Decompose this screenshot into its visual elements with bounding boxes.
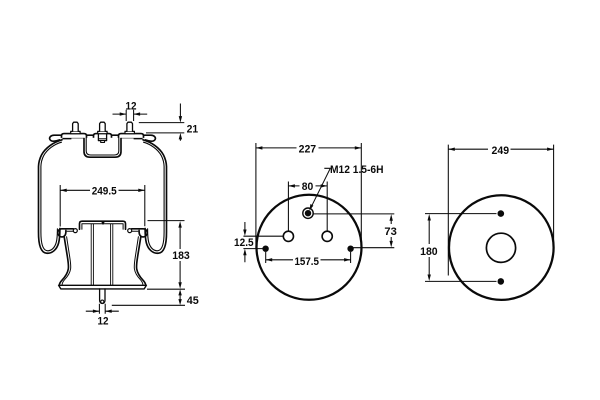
dim 249: extension lines [448, 145, 553, 276]
stud flange center [98, 131, 107, 133]
dim 157.5: dimension lines [266, 259, 351, 261]
dim 183: extension line [148, 220, 185, 222]
plate boss right [119, 134, 144, 138]
svg-text:73: 73 [384, 226, 396, 238]
dim 227: arrows [256, 146, 361, 149]
dim 12 bottom: dimension lines [86, 310, 119, 312]
dim 73: arrows [390, 214, 393, 247]
piston base circle [449, 195, 554, 300]
top plate right edge curl [144, 135, 156, 141]
dim 183: arrows [178, 221, 181, 289]
piston raised plate inner line [82, 224, 123, 230]
svg-text:157.5: 157.5 [294, 256, 319, 268]
dim 180: arrows [428, 214, 431, 281]
bottom stud [100, 289, 105, 304]
dim 73: extension lines [313, 214, 394, 248]
dim 249.5: arrows [60, 189, 145, 192]
piston skirt inner left [62, 237, 71, 286]
dim 249.5: extension lines [60, 185, 145, 227]
center stud lower block in cup [98, 134, 106, 143]
dim 183: dimension line [179, 226, 181, 285]
stud dot right [347, 246, 353, 252]
dim 73: dimension lines [390, 220, 392, 243]
dim 180: dimension lines [428, 220, 430, 276]
BOTTOM VIEW GROUP [420, 145, 553, 300]
piston right wing lower line [132, 230, 138, 232]
svg-text:12: 12 [98, 316, 109, 328]
air fitting M12 center [305, 210, 311, 216]
svg-text:80: 80 [302, 181, 314, 193]
piston center tube lines [91, 224, 113, 286]
dim 249: arrows [448, 148, 553, 151]
piston left wing [58, 229, 74, 237]
dim 249: dimension lines [448, 148, 553, 150]
svg-text:45: 45 [187, 295, 200, 307]
dim 12 top: dimension lines [113, 113, 148, 115]
dim 80: arrows [288, 184, 327, 187]
dim 80: dimension lines [288, 185, 327, 187]
piston skirt inner right [134, 237, 143, 286]
svg-text:12: 12 [126, 100, 137, 112]
dim 12 top: arrows [120, 112, 140, 115]
TOP VIEW GROUP [234, 143, 397, 300]
dim 12.5: arrows [243, 230, 246, 256]
dim 12.5: dimension tails [244, 222, 246, 262]
piston right wing [132, 229, 148, 237]
dim 157.5: arrows [266, 258, 351, 261]
svg-text:249.5: 249.5 [92, 186, 118, 198]
bellows inner outline left [41, 142, 62, 251]
stud flange left [71, 131, 80, 133]
label M12 leader arrow [309, 204, 313, 211]
bolt head right [128, 229, 132, 233]
stud shaft right [127, 122, 133, 131]
piston center hole [486, 233, 515, 262]
piston raised plate [80, 221, 126, 229]
SIDE VIEW GROUP [38, 100, 199, 327]
plate boss center [94, 134, 112, 138]
dim 21: extension lines [139, 123, 185, 133]
svg-text:21: 21 [187, 123, 199, 135]
stud flange right [125, 131, 134, 133]
svg-text:249: 249 [492, 145, 510, 157]
piston left wing lower line [67, 230, 73, 232]
svg-text:183: 183 [172, 250, 190, 262]
svg-text:180: 180 [420, 246, 438, 258]
hole right [322, 231, 332, 241]
piston bottom plate [59, 285, 147, 289]
svg-text:12.5: 12.5 [234, 237, 254, 249]
dim 12.5: extension lines [243, 236, 283, 248]
bead plate circle [257, 195, 362, 300]
cup under center boss outer [84, 138, 121, 157]
air fitting M12 ring [303, 208, 313, 218]
dim 12 top: extension lines [126, 110, 133, 121]
dim 45: dimension line [179, 292, 181, 303]
stud shaft left [73, 122, 79, 131]
label M12 leader line [311, 168, 331, 208]
dim 227: dimension lines [256, 147, 361, 149]
stud dot left [262, 246, 268, 252]
top plate segments [87, 134, 119, 136]
top plate bead lines [62, 138, 143, 139]
hole left [283, 231, 293, 241]
bellows inner outline right [144, 142, 165, 251]
svg-text:M12 1.5-6H: M12 1.5-6H [330, 164, 384, 176]
dim 12 bottom: extension lines [99, 304, 105, 314]
piston skirt outer right [136, 237, 145, 285]
piston V notch [101, 222, 105, 225]
dim 249.5: dimension lines [60, 189, 145, 191]
dim 45: extension lines [112, 289, 185, 305]
dim 180: extension lines [425, 214, 497, 282]
svg-text:227: 227 [299, 143, 317, 155]
dim 45: arrows [178, 289, 181, 305]
dim 157.5: extension ticks [266, 252, 351, 263]
dim 21: arrows and tails [179, 104, 181, 141]
stud shaft center [100, 122, 106, 131]
dim 227: extension lines [256, 143, 361, 248]
stud dot bottom [498, 278, 505, 285]
cup under center boss inner [86, 138, 119, 155]
top plate left edge curl [50, 135, 62, 141]
dim 12 bottom: arrows [93, 310, 112, 313]
dim 80: extension lines [288, 182, 327, 232]
piston skirt outer left [59, 237, 68, 285]
bellows outer outline right [143, 140, 167, 253]
bellows outer outline left [38, 140, 62, 253]
plate boss left [62, 134, 87, 138]
bolt head left [73, 229, 77, 233]
stud dot top [498, 210, 505, 217]
